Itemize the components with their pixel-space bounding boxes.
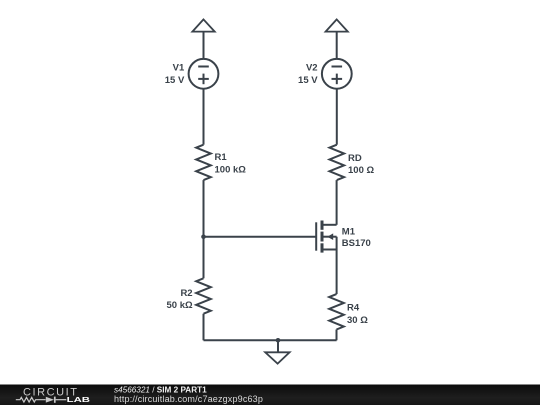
- svg-text:100 kΩ: 100 kΩ: [215, 164, 247, 175]
- resistor R1: [196, 145, 246, 180]
- svg-text:R4: R4: [347, 303, 360, 314]
- svg-text:V1: V1: [173, 63, 185, 74]
- wire: [203, 180, 205, 278]
- wire gate: [204, 236, 317, 238]
- svg-text:50 kΩ: 50 kΩ: [166, 300, 192, 311]
- svg-text:30 Ω: 30 Ω: [347, 315, 368, 326]
- svg-text:BS170: BS170: [342, 238, 371, 249]
- power flag left: [192, 19, 214, 31]
- wire ground stub: [277, 340, 279, 352]
- transistor M1: [316, 221, 371, 253]
- svg-text:R2: R2: [180, 288, 192, 299]
- wire: [203, 32, 205, 59]
- footer title text: [114, 385, 263, 404]
- svg-text:15 V: 15 V: [165, 75, 185, 86]
- wire bottom: [204, 339, 337, 341]
- wire drain: [336, 180, 338, 225]
- node gate junction: [201, 234, 206, 239]
- wire: [203, 89, 205, 145]
- svg-text:M1: M1: [342, 227, 356, 238]
- wire: [336, 330, 338, 341]
- resistor R2: [166, 278, 210, 313]
- node ground junction: [276, 338, 281, 343]
- voltage source V1: [165, 59, 219, 89]
- power flag right: [326, 19, 348, 31]
- logo CircuitLab: [16, 387, 91, 405]
- footer bar: [0, 385, 540, 405]
- resistor R4: [329, 294, 368, 329]
- wire: [336, 89, 338, 145]
- voltage source V2: [298, 59, 352, 89]
- svg-text:http://circuitlab.com/c7aezgxp: http://circuitlab.com/c7aezgxp9c63p: [114, 394, 263, 404]
- svg-text:V2: V2: [306, 63, 318, 74]
- svg-text:LAB: LAB: [67, 395, 91, 404]
- wire: [336, 32, 338, 59]
- svg-text:100 Ω: 100 Ω: [348, 165, 374, 176]
- svg-text:15 V: 15 V: [298, 75, 318, 86]
- resistor RD: [330, 145, 375, 180]
- wire: [203, 314, 205, 341]
- ground: [265, 352, 289, 363]
- svg-text:RD: RD: [348, 153, 362, 164]
- wire source: [336, 250, 338, 295]
- svg-text:R1: R1: [215, 152, 228, 163]
